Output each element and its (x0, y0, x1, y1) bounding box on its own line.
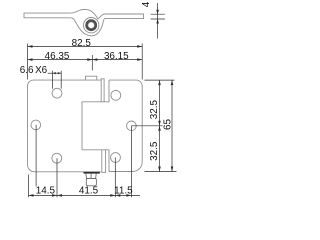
screw flange bar (84, 172, 100, 174)
ext lines 6.6 hole tangents (52, 71, 61, 89)
dim line 82.5 (28, 45, 143, 47)
dim line 46.35 / 36.15 (28, 59, 143, 61)
arrow 32.5 top up (158, 80, 161, 85)
arrow 14.5 left (29, 194, 34, 197)
arrow 4 bottom (up) (156, 19, 159, 24)
screw lower box (rounded) (86, 179, 96, 186)
arrow 46.35 right (87, 58, 92, 61)
arrow 32.5 top down (158, 121, 161, 126)
ext line bottom left corner (14.5) (28, 175, 30, 198)
ext/center line hole L2 down (35, 125, 37, 187)
arrow 6.6 left (52, 72, 56, 74)
top view: coil outer circle (84, 18, 99, 33)
left leaf outline (28, 80, 102, 172)
arrow 36.15 left (92, 58, 97, 61)
top view: knuckle mound outline (71, 9, 144, 35)
right leaf left edge bottom segment (108, 150, 110, 172)
ext line hole R3 down (114, 158, 116, 198)
svg-text:X6: X6 (35, 65, 48, 76)
arrow 41.5 left (57, 194, 62, 197)
arrow 14.5 right (52, 194, 57, 197)
front view (28, 76, 143, 172)
hole L1 (52, 88, 62, 98)
svg-text:46.35: 46.35 (45, 51, 70, 62)
arrow 41.5 right (110, 194, 115, 197)
ext line right edge (82.5/36.15) (141, 44, 143, 80)
right leaf left edge top segment (108, 80, 110, 102)
dimensions (28, 3, 177, 197)
svg-text:65: 65 (163, 119, 174, 130)
svg-text:41.5: 41.5 (79, 186, 99, 197)
svg-text:14.5: 14.5 (36, 186, 56, 197)
arrow 46.35 left (28, 58, 33, 61)
arrow 65 down (171, 167, 174, 172)
hole L2 (31, 120, 41, 130)
arrow 11.5 left (115, 194, 120, 197)
dim line 6.6 (48, 72, 62, 74)
knuckle parting line bottom (82, 149, 110, 151)
top view: coiled ring (thick) (87, 21, 96, 30)
svg-text:11.5: 11.5 (114, 186, 133, 197)
hole R3 (111, 153, 121, 163)
svg-text:36.15: 36.15 (104, 51, 129, 62)
hole R2 (127, 121, 137, 131)
dim line 65 vertical (171, 80, 173, 171)
ext line pin axis (46.35/36.15) (91, 55, 93, 70)
arrow 4 top (down) (156, 10, 159, 15)
pin strip top (101, 79, 104, 102)
arrow 32.5 bottom up (158, 126, 161, 131)
right leaf outline (109, 80, 142, 171)
arrow 6.6 right (58, 72, 62, 74)
arrow 65 up (171, 80, 174, 85)
ext line left edge (82.5/46.35) (27, 44, 29, 80)
top view: left strap (24, 13, 71, 18)
dim line 32.5 vertical (159, 80, 161, 171)
dim line 4 (top view thickness) (157, 3, 159, 39)
top view: pin hole inner edge (88, 22, 95, 29)
knuckle parting line top (82, 101, 110, 103)
knuckle left silhouette edge (81, 102, 83, 150)
hole L3 (52, 153, 62, 163)
ext line top right (32.5/65) (145, 79, 175, 81)
top stop tab (86, 76, 97, 80)
svg-text:4: 4 (141, 1, 152, 7)
svg-text:6.6: 6.6 (20, 65, 34, 76)
ext line hole L3 down (56, 158, 58, 197)
arrow 82.5 left (28, 45, 33, 48)
hole R1 (111, 90, 121, 100)
screw upper box (86, 174, 96, 179)
ext line bottom right (32.5/65) (145, 171, 177, 173)
ext line mid right from hole R2 (131, 125, 162, 127)
ext ticks strap thickness (151, 14, 165, 19)
svg-text:32.5: 32.5 (149, 99, 160, 119)
svg-text:32.5: 32.5 (149, 141, 160, 161)
screw upper box divider (90, 174, 92, 179)
pin strip bottom (102, 150, 106, 173)
svg-text:82.5: 82.5 (72, 38, 92, 49)
arrow 82.5 right (137, 45, 142, 48)
arrow 32.5 bottom down (158, 167, 161, 172)
ext line hole R2 down (130, 126, 132, 197)
arrow 36.15 right (137, 58, 142, 61)
dim line bottom row (29, 194, 141, 196)
arrow 11.5 right (126, 194, 131, 197)
